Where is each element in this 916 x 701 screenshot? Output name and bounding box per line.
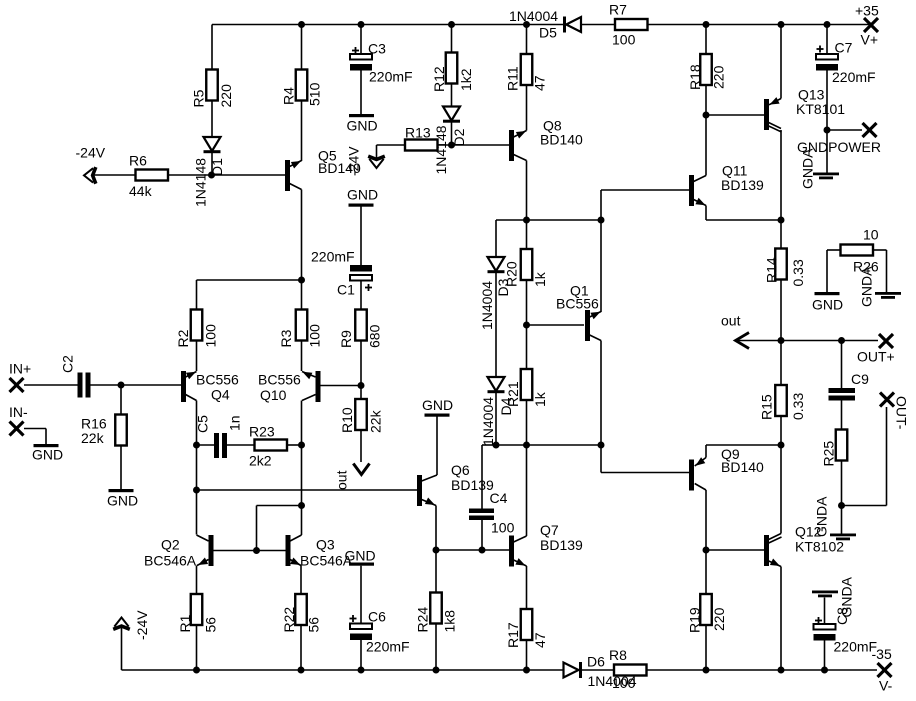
transistor Q9 BD140 bar <box>689 460 694 491</box>
junction top rail <box>523 21 530 28</box>
transistor Q1 top line with arrow <box>589 312 601 320</box>
wire <box>196 625 198 670</box>
wire Q1 base <box>527 324 585 326</box>
wire <box>780 445 782 534</box>
resistor R5 <box>191 70 235 108</box>
wire <box>211 101 213 138</box>
label Q3 <box>300 537 353 569</box>
ground R16 <box>109 489 134 492</box>
svg-text:22k: 22k <box>81 430 105 446</box>
svg-text:1N4148: 1N4148 <box>193 158 209 207</box>
resistor R10 <box>339 399 384 433</box>
label OUT- <box>894 396 910 430</box>
ground GNDA R25 <box>830 534 856 541</box>
label R8 <box>609 647 636 691</box>
svg-text:GNDA: GNDA <box>814 496 830 537</box>
wire <box>196 341 198 372</box>
wire V- rail left <box>122 669 564 671</box>
wire <box>526 85 528 131</box>
svg-text:1N4004: 1N4004 <box>480 397 496 446</box>
plus C6 <box>350 615 357 622</box>
svg-text:BC556: BC556 <box>196 372 239 388</box>
label D4 <box>480 397 514 446</box>
wire <box>600 190 602 312</box>
label Q8 <box>540 118 583 148</box>
junction R9/R10/Q10 base <box>358 382 365 389</box>
svg-text:R19: R19 <box>687 607 703 633</box>
label R26 <box>853 259 879 275</box>
terminal OUT- <box>880 393 894 407</box>
wire <box>287 444 302 446</box>
ground R26 left <box>815 292 840 295</box>
junction R17 bottom <box>523 667 530 674</box>
svg-text:Q4: Q4 <box>211 387 230 403</box>
wire <box>526 161 528 221</box>
junction R14 top <box>778 217 785 224</box>
wire <box>451 25 453 53</box>
svg-text:C9: C9 <box>851 371 869 387</box>
svg-text:BD139: BD139 <box>721 177 764 193</box>
svg-text:1k: 1k <box>532 391 548 407</box>
label GNDPOWER <box>797 139 881 155</box>
wire <box>495 273 497 377</box>
svg-text:44k: 44k <box>129 183 153 199</box>
svg-text:C1: C1 <box>337 282 355 298</box>
transistor Q7 BD139 bar <box>509 536 514 567</box>
wire <box>211 153 213 175</box>
svg-text:22k: 22k <box>368 409 384 433</box>
junction Q6 emitter/R24 <box>433 547 440 554</box>
transistor Q6 emitter with arrow <box>422 498 436 506</box>
wire <box>256 506 258 551</box>
svg-text:1k: 1k <box>532 271 548 287</box>
wire <box>495 220 497 257</box>
label GNDA rotated <box>800 148 816 189</box>
label C9 <box>851 371 869 387</box>
svg-text:BD139: BD139 <box>451 477 494 493</box>
svg-text:0.33: 0.33 <box>790 259 806 286</box>
wire <box>360 341 362 400</box>
junction top rail <box>824 21 831 28</box>
wire <box>360 71 362 115</box>
wire <box>526 400 528 445</box>
wire <box>705 490 707 550</box>
terminal out arrow <box>736 333 750 349</box>
svg-text:C2: C2 <box>60 355 76 373</box>
svg-text:GNDA: GNDA <box>800 148 816 189</box>
label V- <box>872 646 893 694</box>
svg-text:R14: R14 <box>764 257 780 283</box>
terminal V- -35 <box>878 663 892 677</box>
wire <box>91 384 182 386</box>
wire <box>168 174 285 176</box>
svg-text:R5: R5 <box>191 89 207 107</box>
wire <box>360 281 362 310</box>
label Q11 <box>721 163 764 194</box>
svg-text:R11: R11 <box>505 66 521 91</box>
ground below C3 <box>349 114 374 117</box>
ground above C6 <box>349 563 374 566</box>
label IN+ <box>9 361 31 377</box>
wire Q3 base <box>257 550 286 552</box>
transistor Q3 emitter with arrow <box>290 558 301 566</box>
label IN- <box>9 404 28 420</box>
junction R16 top <box>118 382 125 389</box>
transistor Q5 collector line <box>290 161 302 169</box>
wire <box>705 25 707 55</box>
label C3 <box>368 41 413 85</box>
diode D6 1N4004 <box>564 662 583 678</box>
wire <box>257 505 302 507</box>
label D6 <box>587 654 637 690</box>
wire <box>495 393 497 445</box>
wire <box>600 341 602 446</box>
label Q10 <box>258 372 301 404</box>
wire <box>526 445 528 536</box>
junction D1/base Q5 <box>208 172 215 179</box>
svg-text:-24V: -24V <box>346 146 362 176</box>
transistor Q12 top double line <box>768 534 782 544</box>
terminal OUT+ <box>879 334 893 348</box>
svg-text:R18: R18 <box>687 64 703 90</box>
wire <box>377 144 406 146</box>
svg-text:1k8: 1k8 <box>442 610 458 633</box>
junction top rail <box>298 21 305 28</box>
ground GNDA C8 <box>812 591 838 598</box>
resistor R20 <box>504 249 549 287</box>
resistor R19 <box>687 594 728 633</box>
svg-text:R15: R15 <box>759 394 775 420</box>
resistor R2 <box>175 310 219 348</box>
svg-text:BC546A: BC546A <box>144 553 197 569</box>
wire <box>780 567 782 671</box>
svg-text:220: 220 <box>218 84 234 108</box>
transistor Q12 KT8102 bar <box>764 535 769 566</box>
svg-text:BC556: BC556 <box>556 296 599 312</box>
diode D5 1N4004 <box>563 17 581 33</box>
wire Q12 base <box>706 549 764 551</box>
svg-text:IN-: IN- <box>9 404 28 420</box>
wire <box>24 428 46 430</box>
transistor Q10 top line with arrow <box>302 372 316 380</box>
svg-text:220: 220 <box>711 65 727 89</box>
wire <box>481 445 483 509</box>
capacitor C6 220mF <box>350 624 372 641</box>
wire <box>826 130 828 173</box>
svg-text:Q2: Q2 <box>161 537 180 553</box>
svg-text:D5: D5 <box>539 25 557 41</box>
label Q6 <box>451 462 494 493</box>
svg-text:Q10: Q10 <box>260 387 287 403</box>
junction Q6 base net <box>193 487 200 494</box>
svg-text:R3: R3 <box>278 329 294 347</box>
diode D3 1N4004 <box>488 257 505 273</box>
terminal V+ +35 <box>864 18 878 32</box>
svg-text:10: 10 <box>863 227 879 243</box>
junction Q8/Q11 base net <box>598 217 605 224</box>
svg-text:KT8101: KT8101 <box>796 101 845 117</box>
label GND IN- <box>32 447 63 463</box>
diode D2 1N4148 <box>443 107 460 123</box>
wire <box>481 520 483 550</box>
svg-text:220mF: 220mF <box>832 69 876 85</box>
svg-text:R12: R12 <box>431 66 447 92</box>
svg-text:100: 100 <box>612 675 636 691</box>
wire Q9 emitter to rail <box>706 444 781 446</box>
label GNDA C8 <box>834 576 855 625</box>
junction Q8/R20 <box>523 217 530 224</box>
svg-text:GNDA: GNDA <box>859 266 875 307</box>
junction Q1 base tap <box>523 322 530 329</box>
wire <box>376 145 378 158</box>
wire <box>526 25 528 55</box>
label D5 <box>509 8 558 41</box>
wire <box>780 280 782 341</box>
transistor Q8 BD140 bar <box>509 130 514 161</box>
label out rotated <box>334 470 350 490</box>
label Q13 <box>796 87 845 118</box>
wire <box>301 190 303 281</box>
transistor Q13 KT8101 bar <box>764 99 769 130</box>
wire <box>92 174 136 176</box>
wire <box>780 130 782 220</box>
svg-text:R20: R20 <box>504 261 520 287</box>
label Q9 <box>721 446 764 475</box>
wire <box>360 25 362 55</box>
label C5 <box>195 415 243 433</box>
wire Q2 base <box>213 550 257 552</box>
wire <box>211 25 213 70</box>
junction R21/Q7 collector <box>523 442 530 449</box>
svg-text:220mF: 220mF <box>311 249 355 265</box>
label OUT+ <box>857 349 895 365</box>
transistor Q6 BD139 bar <box>417 475 422 506</box>
junction R19 bottom <box>703 667 710 674</box>
capacitor C2 <box>78 373 91 398</box>
wire <box>886 250 888 292</box>
svg-text:IN+: IN+ <box>9 361 31 377</box>
svg-text:2k2: 2k2 <box>249 453 272 469</box>
wire <box>482 444 496 446</box>
svg-text:100: 100 <box>203 324 219 348</box>
label C4 <box>490 490 515 536</box>
svg-text:R23: R23 <box>249 424 275 440</box>
capacitor C3 220mF <box>350 54 372 71</box>
wire Q4 emitter diagonal <box>186 395 197 401</box>
wire <box>842 505 887 507</box>
transistor Q7 emitter with arrow <box>514 558 527 566</box>
transistor Q1 BC556 bar <box>585 310 590 341</box>
wire Q6 base net <box>197 489 418 491</box>
svg-text:1n: 1n <box>227 415 243 431</box>
label Q1 <box>556 283 599 312</box>
label -24V rotated <box>346 146 362 176</box>
label R13 <box>405 125 431 141</box>
svg-text:220mF: 220mF <box>366 639 410 655</box>
resistor R22 <box>281 594 322 633</box>
label C2 <box>60 355 76 373</box>
capacitor C1 220mF <box>350 265 372 281</box>
wire Q1 bottom diagonal <box>589 335 601 341</box>
wire <box>827 249 841 251</box>
wire <box>780 220 782 249</box>
wire D6 to R8 <box>582 669 615 671</box>
transistor Q5 BD140 bar <box>285 160 290 191</box>
svg-text:R24: R24 <box>415 607 431 633</box>
wire <box>826 25 828 55</box>
wire <box>826 250 828 292</box>
wire <box>780 416 782 445</box>
resistor R13 <box>405 140 438 151</box>
transistor Q4 BC556 bar <box>181 371 186 402</box>
wire Q7 collector diagonal <box>514 536 527 542</box>
svg-text:1k2: 1k2 <box>458 68 474 91</box>
wire <box>526 566 528 609</box>
resistor R23 <box>255 440 288 451</box>
wire Q7 base net <box>436 549 509 551</box>
svg-text:R4: R4 <box>281 87 297 105</box>
svg-text:GND: GND <box>347 118 378 134</box>
ground IN- <box>34 444 59 447</box>
label GNDA R25 <box>814 496 830 537</box>
transistor Q13 top line arrow into bar <box>769 97 781 105</box>
svg-text:100: 100 <box>307 324 323 348</box>
junction R24 bottom <box>433 667 440 674</box>
wire <box>196 401 198 535</box>
wire <box>705 550 707 594</box>
label D2 <box>433 125 467 174</box>
resistor R18 <box>687 54 727 90</box>
wire <box>120 446 122 490</box>
svg-text:BD140: BD140 <box>540 132 583 148</box>
wire <box>435 550 437 593</box>
wire <box>301 341 303 372</box>
wire V- rail right <box>647 669 878 671</box>
svg-text:-24V: -24V <box>76 145 106 161</box>
svg-text:R25: R25 <box>821 441 837 467</box>
resistor R26 <box>841 245 874 256</box>
wire <box>196 280 198 310</box>
svg-text:100: 100 <box>491 520 515 536</box>
label GND C6 <box>345 548 376 564</box>
wire current source rail <box>197 279 302 281</box>
junction C5 left <box>193 442 200 449</box>
junction C6 bottom <box>358 667 365 674</box>
junction top rail <box>778 21 785 28</box>
svg-text:GND: GND <box>345 548 376 564</box>
wire <box>120 385 122 415</box>
label R7 <box>609 2 636 48</box>
wire <box>435 506 437 551</box>
transistor Q8 top line with arrow <box>514 131 527 139</box>
transistor Q11 emitter with arrow <box>694 198 706 206</box>
wire <box>841 341 843 389</box>
resistor R3 <box>278 310 323 348</box>
label V+ <box>855 3 879 48</box>
resistor R21 <box>505 369 548 407</box>
wire <box>121 626 123 670</box>
svg-text:GND: GND <box>32 447 63 463</box>
terminal -24V arrow <box>84 167 96 184</box>
wire Q9 base <box>601 472 689 474</box>
label Q12 <box>795 524 844 555</box>
terminal -24V arrow mid <box>368 156 385 168</box>
terminal POWER <box>863 123 877 137</box>
junction R18/Q13 base <box>703 112 710 119</box>
wire Q11 collector diagonal <box>694 176 706 182</box>
wire <box>705 85 707 176</box>
resistor R24 <box>415 593 458 633</box>
resistor R8 <box>614 665 647 676</box>
label 10 <box>863 227 879 243</box>
transistor Q2 emitter with arrow <box>197 558 209 566</box>
capacitor C7 220mF <box>816 54 838 71</box>
wire <box>600 445 602 473</box>
plus C3 <box>352 47 359 54</box>
junction bias net <box>298 502 305 509</box>
wire <box>360 566 362 624</box>
wire <box>827 129 862 131</box>
svg-text:220mF: 220mF <box>834 639 878 655</box>
junction R1 bottom <box>193 667 200 674</box>
svg-text:R9: R9 <box>338 330 354 348</box>
label GND C1 <box>347 187 378 203</box>
wire <box>301 101 303 162</box>
capacitor C4 100 <box>469 509 494 521</box>
wire top rail mid <box>582 24 615 26</box>
label R23 <box>249 424 275 469</box>
wire Q2 collector diagonal <box>197 535 209 541</box>
junction D2/R13 <box>448 142 455 149</box>
svg-text:OUT+: OUT+ <box>857 349 895 365</box>
junction R22 bottom <box>298 667 305 674</box>
wire <box>227 444 255 446</box>
transistor Q2 BC546A bar <box>209 535 214 566</box>
junction R15/Q12 <box>778 442 785 449</box>
label GND C3 <box>347 118 378 134</box>
wire <box>196 566 198 595</box>
transistor Q9 top line arrow into bar <box>695 457 706 466</box>
junction C9 top <box>838 337 845 344</box>
junction Q9/R19/Q12 base <box>703 547 710 554</box>
svg-text:OUT-: OUT- <box>894 396 910 430</box>
transistor Q10 BC556 bar <box>316 371 321 402</box>
wire out node <box>737 340 879 342</box>
junction top rail <box>703 21 710 28</box>
wire Q11 emitter to rail <box>706 219 781 221</box>
svg-text:R10: R10 <box>339 407 355 433</box>
wire <box>841 506 843 534</box>
wire <box>360 430 362 462</box>
terminal -24V arrow bottom <box>113 618 130 630</box>
ground GNDA power <box>813 173 839 180</box>
label R16 <box>81 416 107 447</box>
label Q5 <box>318 148 361 177</box>
wire Q13 base <box>706 114 764 116</box>
junction C7/POWER <box>824 127 831 134</box>
svg-text:510: 510 <box>307 82 323 106</box>
svg-text:56: 56 <box>306 617 322 633</box>
transistor Q3 BC546A bar <box>286 535 291 566</box>
svg-text:1N4004: 1N4004 <box>479 281 495 330</box>
junction top rail <box>358 21 365 28</box>
svg-text:R21: R21 <box>505 381 521 407</box>
wire <box>24 384 78 386</box>
label D3 <box>479 278 511 330</box>
wire <box>526 220 528 249</box>
wire Q9 collector diagonal <box>695 484 706 491</box>
wire <box>705 206 707 221</box>
